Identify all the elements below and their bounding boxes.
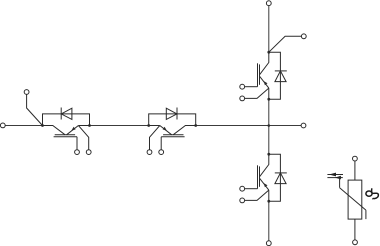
temperature arrow line 2 bbox=[327, 177, 342, 179]
terminal 1 (far left) bbox=[0, 123, 5, 128]
wire: left terminal to node A1 bbox=[5, 125, 42, 127]
temperature arrow head 1 bbox=[329, 173, 336, 177]
IGBT cell Q3 with diode D3 (high side, rotated) bbox=[240, 51, 287, 101]
wire: bottom-cell emitter node to bottom terminal bbox=[268, 201, 270, 241]
temperature arrow head 2 bbox=[335, 176, 341, 180]
wire bbox=[354, 161, 356, 180]
terminal 2 (right of main wire) bbox=[301, 123, 306, 128]
IGBT cell Q1 with diode D1 bbox=[41, 108, 91, 155]
temperature arrow line 1 bbox=[327, 174, 343, 176]
wire: node B1 to node C bbox=[90, 125, 149, 127]
thermistor top terminal bbox=[353, 156, 358, 161]
IGBT cell Q4 with diode D4 (low side, rotated) bbox=[240, 153, 287, 203]
aux collector terminal of Q3 bbox=[269, 34, 306, 52]
aux collector terminal of Q1 bbox=[24, 90, 42, 126]
IGBT cell Q2 with diode D2 (mirrored) bbox=[147, 108, 197, 155]
thermistor R(th) bbox=[327, 156, 366, 245]
wire bbox=[354, 219, 356, 240]
theta symbol bbox=[366, 188, 378, 199]
wire: node D to right terminal bbox=[196, 125, 302, 127]
wire: top-cell emitter node to bottom-cell collector node bbox=[268, 99, 270, 154]
variability stroke vertical bbox=[339, 178, 341, 188]
thermistor body bbox=[348, 180, 362, 219]
terminal 3 (top of bus) bbox=[266, 1, 271, 6]
terminal 4 (bottom of bus) bbox=[266, 241, 271, 246]
junction at bus crossing bbox=[268, 124, 271, 127]
variability stroke diagonal bbox=[340, 188, 366, 210]
wire: top terminal to node P bbox=[268, 6, 270, 53]
thermistor bottom terminal bbox=[353, 240, 358, 245]
variability stroke foot bbox=[365, 210, 367, 219]
